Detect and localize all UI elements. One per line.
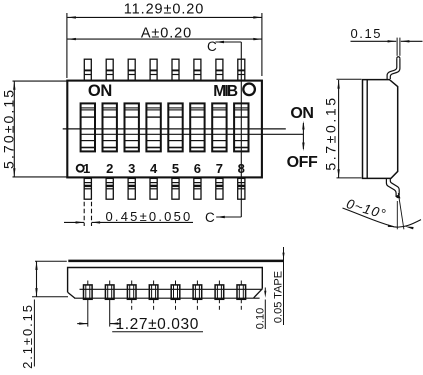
- switch actuator 4: [146, 103, 160, 151]
- svg-text:C: C: [205, 210, 215, 225]
- extension line body bottom left: [13, 176, 67, 178]
- svg-text:5.7±0.15: 5.7±0.15: [322, 95, 338, 170]
- switch body: [67, 81, 262, 178]
- svg-text:2.1±0.15: 2.1±0.15: [20, 303, 35, 369]
- dimension 0.05 TAPE line: [283, 247, 285, 325]
- bottom lead pin 4: [150, 178, 157, 199]
- top lead pin 1: [84, 59, 91, 80]
- svg-text:6: 6: [194, 161, 201, 176]
- svg-text:3: 3: [128, 161, 135, 176]
- svg-text:4: 4: [150, 161, 158, 176]
- dimension 0.15 lines: [351, 40, 397, 42]
- svg-text:5: 5: [172, 161, 179, 176]
- svg-text:0.10: 0.10: [255, 308, 267, 329]
- bottom lead pin 7: [216, 178, 223, 199]
- top lead pin 5: [172, 59, 179, 80]
- angle reference line 0deg: [396, 201, 398, 229]
- top lead pin 6: [194, 59, 201, 80]
- dimension 2.1 line: [36, 261, 38, 296]
- svg-text:ON: ON: [290, 105, 313, 122]
- extension line left: [66, 13, 68, 78]
- index circle bottom left: [77, 165, 84, 172]
- tape strip: [68, 260, 283, 263]
- svg-text:11.29±0.20: 11.29±0.20: [124, 1, 204, 17]
- switch actuator 3: [125, 103, 139, 151]
- svg-text:8: 8: [238, 161, 245, 176]
- dimension 0.45 arrows: [64, 221, 84, 223]
- bottom view pin 7: [215, 285, 224, 299]
- svg-text:2: 2: [106, 161, 113, 176]
- dimension 11.29 line: [67, 16, 262, 18]
- extension line right: [261, 13, 263, 76]
- left chamfer: [68, 292, 75, 298]
- right chamfer: [254, 289, 263, 298]
- top lead pin 7: [216, 59, 223, 80]
- dimension 5.70 line: [13, 81, 15, 177]
- bottom view pin 6: [193, 285, 202, 299]
- lead exit line: [80, 288, 263, 290]
- extension line body top left: [13, 80, 67, 82]
- top lead pin 3: [128, 59, 135, 80]
- switch actuator 5: [168, 103, 182, 151]
- datum C top leader: [215, 41, 241, 43]
- seating plane line: [74, 297, 259, 299]
- bottom lead pin 6: [194, 178, 201, 199]
- side extension bottom: [337, 177, 362, 179]
- switch actuator 1: [81, 103, 95, 151]
- bottom view pin 2: [105, 285, 114, 299]
- side view front face line: [366, 80, 368, 179]
- svg-text:C: C: [207, 39, 217, 54]
- pin 3 centreline: [131, 281, 133, 285]
- pin 1 centreline: [87, 281, 89, 285]
- svg-text:MIB: MIB: [213, 83, 238, 100]
- svg-text:0.45±0.050: 0.45±0.050: [106, 209, 193, 224]
- 1.27 text underline: [112, 331, 203, 333]
- svg-text:OFF: OFF: [287, 154, 318, 171]
- side extension top: [337, 78, 362, 80]
- housing slot line upper: [63, 128, 286, 130]
- svg-text:7: 7: [216, 161, 223, 176]
- switch actuator 7: [212, 103, 226, 151]
- svg-text:0.15: 0.15: [350, 26, 382, 41]
- top lead pin 8: [238, 59, 245, 80]
- bottom view body outline: [68, 268, 263, 293]
- switch actuator 2: [103, 103, 117, 151]
- dimension A line: [67, 38, 262, 40]
- svg-text:1: 1: [83, 161, 90, 176]
- 0.15 extension lines: [396, 38, 398, 56]
- dimension 5.7 line: [338, 80, 340, 178]
- pin 5 centreline: [175, 281, 177, 285]
- angle reference line 10deg: [398, 193, 404, 229]
- bottom gull-wing lead: [386, 179, 396, 197]
- bottom lead pin 8: [238, 178, 245, 199]
- bottom lead pin 5: [172, 178, 179, 199]
- svg-text:1.27±0.030: 1.27±0.030: [116, 316, 199, 333]
- pin 2 centreline: [109, 281, 111, 285]
- bottom view pin 3: [127, 285, 136, 299]
- svg-text:0.05 TAPE: 0.05 TAPE: [272, 271, 284, 323]
- bottom lead pin 1: [84, 178, 91, 199]
- dimension 0.10 lines: [264, 288, 266, 292]
- dimension 2.1±0.15 extensions: [35, 260, 67, 262]
- pin 7 centreline: [218, 281, 220, 285]
- pin1 index circle (top right): [243, 84, 255, 96]
- bottom lead pin 2: [106, 178, 113, 199]
- top gull-wing lead: [387, 58, 397, 79]
- bottom view pin 1: [84, 285, 93, 299]
- bottom lead pin 3: [128, 178, 135, 199]
- housing slot line lower / actuator travel line: [80, 133, 303, 135]
- switch actuator 8: [234, 103, 248, 151]
- dimension 0.45±0.050 extension lines: [83, 202, 85, 226]
- pin 6 centreline: [196, 281, 198, 285]
- datum C bottom leader: [216, 216, 241, 218]
- side view body: [363, 80, 398, 179]
- dimension 1.27±0.030 arrows: [77, 323, 88, 325]
- bottom view pin 5: [171, 285, 180, 299]
- datum C vertical line: [240, 42, 242, 217]
- pin 8 centreline: [240, 281, 242, 285]
- pin 4 centreline: [153, 281, 155, 285]
- top lead pin 4: [150, 59, 157, 80]
- bottom view pin 8: [237, 285, 246, 299]
- top lead pin 2: [106, 59, 113, 80]
- switch actuator 6: [190, 103, 204, 151]
- 2.1 text underline: [33, 300, 35, 367]
- svg-text:ON: ON: [88, 82, 112, 100]
- bottom view pin 4: [149, 285, 158, 299]
- ON/OFF travel arrow: [302, 123, 304, 149]
- angle leader arc: [343, 208, 422, 227]
